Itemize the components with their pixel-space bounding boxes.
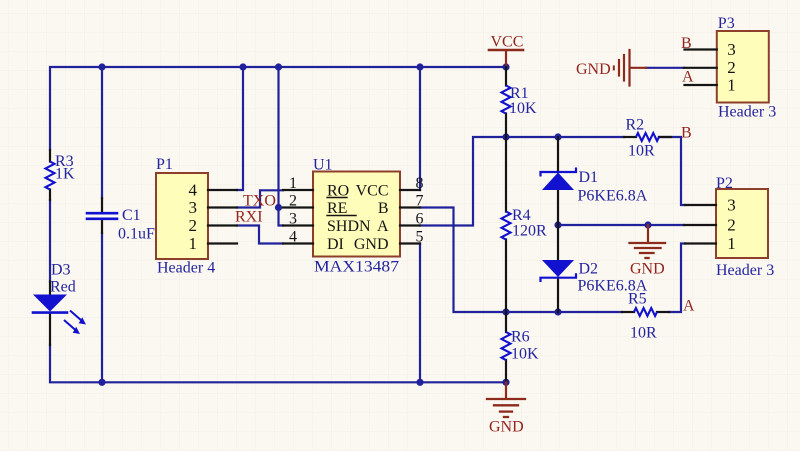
svg-text:4: 4 xyxy=(189,181,198,200)
svg-text:0.1uF: 0.1uF xyxy=(118,226,155,243)
svg-text:A: A xyxy=(377,218,389,235)
wire U1 pin7 down to lower A row xyxy=(420,208,622,313)
P3 pin 3 xyxy=(685,48,717,50)
junction (558,312) xyxy=(554,308,561,315)
svg-text:SHDN: SHDN xyxy=(327,218,371,235)
capacitor C1 xyxy=(101,198,103,212)
U1 pin 5 GND xyxy=(400,242,420,244)
svg-text:2: 2 xyxy=(727,216,736,235)
junction (648,225) xyxy=(644,221,651,228)
U1 pin 4 DI xyxy=(283,242,313,244)
svg-text:P2: P2 xyxy=(716,175,733,192)
wire C1 branch lower xyxy=(101,233,103,382)
P1 pin 4 xyxy=(208,189,237,191)
svg-text:VCC: VCC xyxy=(491,34,524,51)
svg-text:R6: R6 xyxy=(511,329,530,346)
svg-text:3: 3 xyxy=(189,198,198,217)
svg-text:2: 2 xyxy=(189,216,198,235)
svg-text:RXI: RXI xyxy=(235,209,263,226)
svg-text:R2: R2 xyxy=(626,117,645,134)
junction (558,137) xyxy=(554,133,561,140)
svg-text:DI: DI xyxy=(327,236,344,253)
P1 pin 2 xyxy=(208,224,237,226)
wire VCC top rail and left rail xyxy=(50,67,506,150)
svg-text:B: B xyxy=(681,125,692,142)
svg-text:P6KE6.8A: P6KE6.8A xyxy=(578,188,648,205)
ground GND bottom xyxy=(505,382,507,398)
junction (506,67) xyxy=(502,63,509,70)
resistor R1 xyxy=(505,67,507,86)
svg-text:10R: 10R xyxy=(630,325,657,342)
svg-text:Red: Red xyxy=(50,279,76,296)
svg-text:R5: R5 xyxy=(628,291,647,308)
op-amp U1 MAX13487 body xyxy=(313,172,400,257)
wire B row right of R2 down to P2 pin3 xyxy=(659,137,685,205)
svg-text:1K: 1K xyxy=(55,166,75,183)
resistor R4 xyxy=(505,137,507,212)
P2 pin 2 xyxy=(684,224,716,226)
resistor R3 xyxy=(49,150,51,162)
svg-text:R4: R4 xyxy=(512,207,531,224)
P1 pin 3 xyxy=(208,206,237,208)
svg-text:GND: GND xyxy=(489,419,524,436)
junction (278.5,207.5) xyxy=(275,204,282,211)
svg-text:7: 7 xyxy=(416,193,424,210)
svg-text:D1: D1 xyxy=(579,169,599,186)
connector P2 (Header 3) xyxy=(716,189,768,258)
TVS diode D2 P6KE6.8A xyxy=(557,225,559,260)
junction (506,312) xyxy=(502,308,509,315)
junction (558,225) xyxy=(554,221,561,228)
junction (102,382.3) xyxy=(98,379,105,386)
power port VCC xyxy=(505,51,507,68)
svg-text:1: 1 xyxy=(727,76,736,95)
svg-text:1: 1 xyxy=(289,175,297,192)
wire net TXO: P1 pin3 to U1 pin1 xyxy=(237,190,283,207)
connector P1 (Header 4) xyxy=(156,173,208,259)
svg-text:TXO: TXO xyxy=(243,193,276,210)
ground GND middle xyxy=(647,225,649,243)
svg-text:6: 6 xyxy=(416,211,424,228)
resistor R5 xyxy=(622,311,634,313)
svg-text:P3: P3 xyxy=(718,15,735,32)
svg-text:10R: 10R xyxy=(628,143,655,160)
U1 pin 8 VCC xyxy=(400,189,420,191)
svg-text:1: 1 xyxy=(727,234,736,253)
svg-text:10K: 10K xyxy=(511,346,539,363)
wire P1 pin4 to VCC rail xyxy=(237,67,243,190)
junction (102,67) xyxy=(98,63,105,70)
U1 pin 7 B xyxy=(400,206,420,208)
svg-text:GND: GND xyxy=(630,261,665,278)
wire P3 pin2 to GND port xyxy=(646,67,684,69)
junction (420,67) xyxy=(416,63,423,70)
svg-text:VCC: VCC xyxy=(356,183,389,200)
svg-text:P1: P1 xyxy=(156,156,173,173)
U1 pin 2 RE xyxy=(283,206,313,208)
svg-text:120R: 120R xyxy=(512,223,547,240)
P3 pin 1 xyxy=(685,84,717,86)
svg-text:D2: D2 xyxy=(579,261,599,278)
svg-text:3: 3 xyxy=(727,40,736,59)
svg-text:A: A xyxy=(682,69,694,86)
svg-text:4: 4 xyxy=(289,229,297,246)
wire U1 pin6 up to B row xyxy=(420,137,624,226)
resistor R2 xyxy=(624,136,636,138)
svg-text:Header 3: Header 3 xyxy=(718,104,776,121)
U1 pin 3 SHDN xyxy=(283,224,313,226)
P1 pin 1 xyxy=(208,242,237,244)
svg-text:Header 3: Header 3 xyxy=(716,262,774,279)
svg-text:8: 8 xyxy=(416,175,424,192)
svg-text:B: B xyxy=(378,200,389,217)
P3 pin 2 xyxy=(684,67,717,69)
LED D3 xyxy=(49,282,51,296)
junction (243,67) xyxy=(239,63,246,70)
P2 pin 3 xyxy=(685,204,716,206)
svg-text:B: B xyxy=(681,35,692,52)
svg-text:1: 1 xyxy=(189,234,198,253)
wire A row right of R5 up to P2 pin1 xyxy=(669,244,685,313)
U1 pin 6 A xyxy=(400,224,420,226)
svg-text:MAX13487: MAX13487 xyxy=(314,259,399,276)
svg-text:U1: U1 xyxy=(313,157,333,174)
svg-text:RE: RE xyxy=(327,200,347,217)
P2 pin 1 xyxy=(685,242,716,244)
svg-text:Header 4: Header 4 xyxy=(157,260,215,277)
svg-text:5: 5 xyxy=(416,229,424,246)
junction (506,382.3) xyxy=(502,379,509,386)
wire C1 branch upper xyxy=(101,67,103,198)
wire middle GND row to P2 pin2 xyxy=(558,224,684,226)
svg-text:2: 2 xyxy=(727,58,736,77)
svg-text:GND: GND xyxy=(576,61,611,78)
svg-text:GND: GND xyxy=(354,236,389,253)
resistor R6 xyxy=(505,312,507,332)
svg-text:C1: C1 xyxy=(122,207,141,224)
svg-text:D3: D3 xyxy=(51,262,71,279)
svg-text:A: A xyxy=(683,298,695,315)
wire net RXI: P1 pin2 to U1 pin4 xyxy=(237,226,283,244)
junction (420,382.3) xyxy=(416,379,423,386)
U1 pin 1 RO xyxy=(283,189,313,191)
svg-text:3: 3 xyxy=(727,196,736,215)
svg-text:10K: 10K xyxy=(509,100,537,117)
connector P3 (Header 3) xyxy=(717,31,769,103)
wire VCC rail to U1 pin2 and pin3 xyxy=(279,67,284,226)
wire U1 pin8 to VCC rail xyxy=(419,67,421,190)
svg-text:2: 2 xyxy=(289,193,297,210)
wire left rail middle segment (R3 to D3) xyxy=(49,200,51,282)
ground GND top right (rotated) xyxy=(630,67,646,69)
junction (506,137) xyxy=(502,133,509,140)
wire bottom rail and left rail lower segment xyxy=(50,345,506,382)
junction (278.5,67) xyxy=(275,63,282,70)
svg-text:3: 3 xyxy=(289,211,297,228)
TVS diode D1 P6KE6.8A xyxy=(557,137,559,172)
wire U1 pin5 down to bottom rail xyxy=(419,244,421,383)
